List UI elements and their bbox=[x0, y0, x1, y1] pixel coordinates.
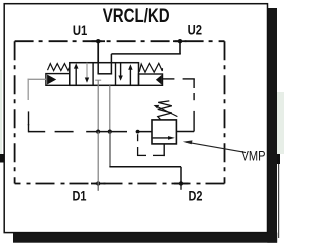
svg-text:D1: D1 bbox=[73, 187, 87, 203]
valve position boundary 1 bbox=[92, 63, 94, 86]
wire sq2 internal elbow bbox=[98, 73, 112, 75]
pilot riser dashed continuation bbox=[28, 111, 30, 125]
node D1 junction dot bbox=[96, 181, 100, 185]
drop shadow right bar bbox=[267, 8, 277, 243]
left margin black mark bbox=[0, 154, 4, 163]
gray pilot line down from sq2 tap bbox=[97, 80, 99, 131]
node D2 junction dot bbox=[179, 181, 183, 185]
gray pilot riser left bbox=[27, 79, 29, 100]
D2 port stub bbox=[180, 184, 182, 190]
sq3 flow down arrow bbox=[120, 63, 122, 79]
sq3 check flow up arrow bbox=[129, 66, 131, 85]
relief drain to pilot loop bbox=[163, 144, 165, 156]
D1 port stub bbox=[97, 184, 99, 191]
sq1 check flow up arrow bbox=[75, 65, 77, 85]
node U2 junction dot bbox=[178, 39, 182, 43]
relief return dashes up bbox=[193, 93, 195, 100]
VMP callout arrow bbox=[186, 142, 246, 153]
wire U2 riser bbox=[179, 41, 181, 54]
drop shadow bottom bar bbox=[13, 233, 277, 243]
relief internal flow arrow bbox=[153, 137, 171, 139]
dashed pilot loop under relief bbox=[137, 134, 165, 156]
valve body VRCL main rectangle bbox=[70, 63, 139, 86]
spring right valve bbox=[139, 63, 162, 72]
right pale strip bbox=[277, 92, 284, 154]
gray main line continuation to D1 bbox=[97, 132, 99, 184]
svg-text:D2: D2 bbox=[189, 187, 203, 203]
node U1 junction dot bbox=[96, 39, 100, 43]
wire U1 riser to valve bbox=[97, 41, 99, 63]
relief return riser solid bbox=[193, 111, 195, 132]
svg-text:VRCL/KD: VRCL/KD bbox=[103, 6, 170, 27]
wire bridge drop into sq2 bbox=[110, 54, 112, 75]
valve position boundary 2 bbox=[115, 63, 117, 86]
subplate boundary (dash-dot rectangle) bbox=[15, 41, 225, 183]
relief spring (adjustable) bbox=[158, 101, 172, 120]
relief right port bbox=[176, 131, 194, 133]
gray pilot line into left pilot box bbox=[28, 78, 46, 80]
node dot1 main line junction bbox=[96, 130, 100, 134]
drain leg from dot2 down bbox=[109, 132, 111, 167]
sq2 gray pilot tap bar bbox=[95, 79, 101, 81]
white card with border bbox=[4, 4, 267, 233]
right margin black notch bbox=[277, 154, 281, 164]
right thin page edge line bbox=[278, 164, 279, 238]
svg-text:U2: U2 bbox=[188, 21, 203, 37]
wire drain bottom run to D2 bbox=[109, 166, 181, 168]
elbow at pilot run left corner bbox=[28, 124, 30, 132]
node dot2 drain leg junction bbox=[108, 130, 112, 134]
sq1 restricted flow down (gray line, black head) bbox=[86, 63, 88, 78]
pilot box right (with left-pointing solid triangle) bbox=[139, 74, 163, 85]
wire bridge U2 to valve sq2 bbox=[111, 53, 180, 55]
left pale strip bbox=[0, 70, 2, 155]
spring left valve bbox=[48, 64, 70, 71]
relief adjust arrow bbox=[158, 107, 178, 117]
svg-text:U1: U1 bbox=[73, 22, 88, 38]
svg-text:VMP: VMP bbox=[242, 149, 266, 164]
relief valve VMP box bbox=[152, 120, 176, 144]
pilot run dashes along y=131.6 bbox=[28, 131, 152, 133]
wire D2 riser bbox=[180, 167, 182, 184]
solid segments under port junction dots bbox=[91, 41, 189, 183]
right pilot line from box bbox=[162, 78, 174, 80]
node dot3 relief pilot junction bbox=[136, 130, 140, 134]
gray pilot line down from sq3 bbox=[109, 85, 111, 131]
pilot box left (with right-pointing solid triangle) bbox=[46, 74, 70, 86]
